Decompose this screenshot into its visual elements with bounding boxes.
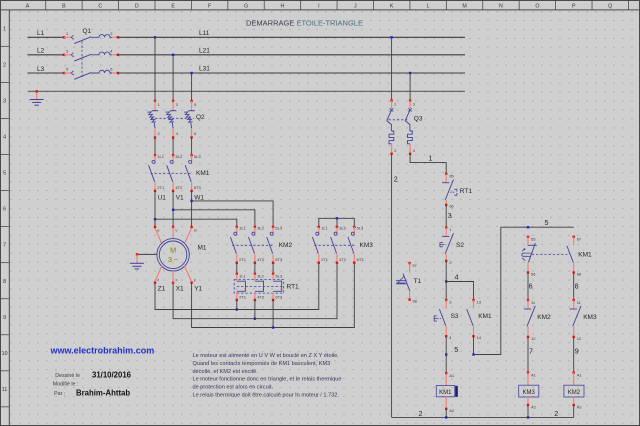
svg-text:A2: A2 [449, 408, 455, 413]
wire control drop 2 [409, 73, 411, 101]
svg-text:DEMARRAGE ETOILE-TRIANGLE: DEMARRAGE ETOILE-TRIANGLE [246, 19, 363, 28]
svg-text:1: 1 [3, 26, 6, 32]
svg-text:6: 6 [3, 207, 6, 213]
contactor KM1 pole 3 [185, 154, 193, 192]
breaker Q2 pole 2 [165, 100, 176, 139]
svg-text:KM2: KM2 [279, 242, 293, 249]
svg-text:w: w [194, 228, 197, 233]
svg-text:9: 9 [3, 315, 6, 321]
svg-text:7: 7 [529, 346, 533, 355]
svg-text:13: 13 [477, 300, 482, 305]
svg-text:KM2: KM2 [568, 390, 581, 396]
svg-text:M: M [170, 246, 176, 255]
wire L2 input [28, 54, 65, 56]
svg-text:3 ~: 3 ~ [168, 255, 178, 264]
node L31 tap [190, 72, 192, 74]
svg-text:10: 10 [2, 351, 8, 357]
svg-text:5: 5 [454, 345, 458, 354]
svg-text:4: 4 [455, 273, 459, 282]
KM3 star bar [319, 218, 355, 227]
svg-text:Brahim-Ahttab: Brahim-Ahttab [76, 389, 130, 398]
wire W1 to KM2 pole3 [192, 201, 274, 227]
svg-text:3L2: 3L2 [257, 226, 264, 231]
Q2 mechanical link [151, 117, 194, 119]
thermal contact RT1 95-96 [442, 173, 453, 206]
Q3 mechanical link [389, 119, 408, 121]
node rail-branchA [527, 226, 529, 228]
node bus KM1coil [445, 416, 447, 418]
svg-text:6T3: 6T3 [275, 257, 283, 262]
KM1 timer link [532, 254, 568, 256]
svg-text:3: 3 [448, 211, 452, 220]
svg-text:95: 95 [449, 174, 454, 179]
wire KM1-U1 [154, 191, 156, 227]
ground PE [30, 92, 44, 105]
wire KM2coil-bus [573, 405, 575, 417]
svg-text:1L1: 1L1 [239, 226, 246, 231]
contactor KM2 pole 1 [230, 226, 238, 264]
svg-text:4T2: 4T2 [175, 185, 183, 190]
contactor KM3 pole 1 [312, 226, 320, 264]
breaker Q2 pole 3 [184, 100, 195, 139]
wire drop phase1 [154, 37, 156, 101]
thermal relay RT1 box [234, 280, 284, 294]
KM1 mechanical link [151, 173, 193, 175]
svg-text:z: z [157, 277, 159, 282]
contactor KM3 pole 2 [331, 226, 339, 264]
svg-text:A1: A1 [449, 373, 455, 378]
svg-text:A: A [26, 4, 30, 10]
wire node5-KM1coil [445, 355, 447, 374]
wire Q3 to RT1 contact [410, 154, 446, 174]
svg-text:5L3: 5L3 [194, 154, 201, 159]
motor M1 terminals u v w [154, 226, 197, 244]
svg-text:6: 6 [529, 281, 533, 290]
svg-text:M1: M1 [198, 245, 207, 252]
svg-text:Dessiné le: Dessiné le [55, 373, 80, 379]
wire L11 rail [118, 36, 465, 38]
svg-text:68: 68 [577, 271, 582, 276]
wire KM1aux to node5 [473, 336, 475, 354]
svg-text:2: 2 [419, 409, 423, 418]
svg-text:12: 12 [577, 336, 582, 341]
wire drop phase2 [172, 55, 174, 101]
KM2 mechanical link [232, 244, 274, 246]
node bus KM3coil [527, 416, 529, 418]
node RT1-X1 [254, 318, 256, 320]
contactor KM1 pole 1 [149, 154, 157, 192]
wire KM2-RT1 3 [272, 263, 274, 274]
svg-text:4T2: 4T2 [257, 295, 265, 300]
wire bottom bus 2 [392, 416, 574, 418]
description text block [193, 353, 342, 398]
breaker Q2 pole 1 [147, 100, 158, 139]
svg-text:98: 98 [412, 299, 417, 304]
pushbutton S2 (NC) [442, 226, 453, 262]
svg-text:2T1: 2T1 [239, 295, 247, 300]
KM3 mechanical link [314, 244, 355, 246]
thermal element RT1 pole 1 [236, 273, 246, 302]
PE junction node [36, 90, 38, 92]
wire 12-A1 right [573, 337, 575, 373]
svg-text:1L1: 1L1 [321, 226, 328, 231]
aux contact KM2 11-12 (NC) [524, 299, 535, 338]
wire V1 to KM2 pole2 [173, 210, 255, 227]
coil KM3 [519, 371, 539, 406]
coil KM1 [436, 372, 458, 410]
svg-text:W1: W1 [194, 194, 204, 201]
contactor KM3 pole 3 [348, 226, 356, 264]
svg-text:2: 2 [394, 175, 398, 184]
svg-text:KM3: KM3 [523, 390, 536, 396]
svg-text:2T1: 2T1 [321, 257, 329, 262]
svg-text:KM3: KM3 [360, 242, 374, 249]
motor M1 terminals z x y [154, 266, 196, 284]
svg-text:55: 55 [531, 236, 536, 241]
svg-text:97: 97 [412, 263, 417, 268]
svg-text:3: 3 [3, 99, 6, 105]
wire RT1 pole1 down [236, 300, 238, 310]
switch-fuse Q1 pole 2 (L2) [63, 52, 119, 61]
svg-text:5L3: 5L3 [357, 226, 364, 231]
motor ground node [136, 253, 138, 255]
svg-text:Q: Q [608, 4, 612, 10]
svg-text:O: O [535, 4, 539, 10]
svg-text:L31: L31 [199, 66, 210, 73]
svg-text:5: 5 [3, 171, 6, 177]
svg-text:A1: A1 [577, 372, 583, 377]
wire KM2-RT1 1 [236, 263, 238, 274]
wire U1 to KM2 pole1 [155, 219, 237, 227]
node U1 tap [154, 218, 156, 220]
svg-text:H: H [281, 4, 285, 10]
svg-text:Quand les contacts temporisés: Quand les contacts temporisés de KM1 bas… [193, 361, 331, 367]
svg-text:D: D [135, 4, 139, 10]
svg-text:KM1: KM1 [439, 390, 452, 396]
svg-text:V1: V1 [176, 194, 184, 201]
wire S2-node4 [445, 261, 447, 282]
breaker Q3 pole 1 [387, 99, 394, 155]
pushbutton S3 (NO start) [439, 299, 447, 338]
wire 55-11 [527, 272, 529, 300]
svg-text:L1: L1 [37, 30, 45, 37]
svg-text:RT1: RT1 [460, 188, 473, 195]
wire RT1 pole2 down [254, 300, 256, 319]
svg-text:v: v [175, 228, 177, 233]
svg-text:X1: X1 [176, 285, 184, 292]
wire control drop 1 [391, 37, 393, 100]
svg-text:S3: S3 [451, 313, 459, 320]
wire node4 down [445, 282, 447, 301]
RT1 trip actuator [450, 189, 457, 195]
svg-text:décolle, et KM2 est excité.: décolle, et KM2 est excité. [193, 369, 259, 375]
aux contact KM3 11-12 (NC) [570, 299, 581, 338]
svg-text:Z1: Z1 [158, 285, 166, 292]
timed contact KM1 55-56 [527, 236, 537, 274]
wire KM2-RT1 2 [254, 263, 256, 274]
svg-text:A2: A2 [577, 404, 583, 409]
ground motor [130, 254, 144, 269]
contactor KM2 pole 3 [267, 226, 275, 264]
svg-text:31/10/2016: 31/10/2016 [92, 371, 132, 380]
wire star middle [336, 218, 338, 227]
wire control rail N [391, 154, 393, 418]
wire Z1 to KM3 [155, 263, 319, 310]
svg-text:2: 2 [554, 409, 558, 418]
coil KM2 [564, 371, 584, 406]
node control tap L31 [409, 72, 411, 74]
wire u drop [154, 219, 156, 227]
motor M1 circle [157, 239, 189, 271]
wire L21 rail [118, 54, 465, 56]
wire KM1-W1 [191, 191, 193, 227]
svg-text:Q1: Q1 [83, 28, 92, 35]
node RT1-Y1 [272, 326, 274, 328]
wire node4 branch [446, 282, 473, 301]
svg-text:4T2: 4T2 [339, 257, 347, 262]
svg-text:6T3: 6T3 [275, 295, 283, 300]
svg-text:Y1: Y1 [194, 285, 202, 292]
Q1 mechanical link [81, 41, 83, 79]
svg-text:1L1: 1L1 [239, 274, 246, 279]
svg-text:u: u [157, 228, 159, 233]
node control tap L11 [390, 36, 392, 38]
svg-text:M: M [462, 4, 466, 10]
motor ground wire [137, 253, 157, 255]
wire L31 rail [118, 72, 465, 74]
svg-text:96: 96 [449, 204, 454, 209]
wire KM3coil-bus [527, 405, 529, 417]
svg-text:T1: T1 [414, 278, 422, 285]
wire drop phase3 [191, 73, 193, 101]
node W1 tap [190, 200, 192, 202]
svg-text:5: 5 [545, 218, 549, 227]
svg-text:J: J [354, 4, 357, 10]
svg-text:9: 9 [575, 346, 579, 355]
contactor KM2 pole 2 [249, 226, 257, 264]
svg-text:Modifié le :: Modifié le : [53, 382, 79, 388]
svg-text:y: y [194, 277, 196, 282]
delay actuator (capsule) [522, 249, 531, 261]
svg-text:K: K [390, 4, 394, 10]
svg-text:6T3: 6T3 [357, 257, 365, 262]
wire node5 rail [474, 227, 574, 354]
svg-text:L2: L2 [37, 48, 45, 55]
wire L1 input [28, 36, 65, 38]
svg-text:14: 14 [477, 335, 482, 340]
RT1 link dashes [237, 285, 282, 287]
S3 button actuator [434, 316, 442, 321]
thermal element RT1 pole 3 [272, 273, 282, 302]
svg-text:I: I [318, 4, 319, 10]
wire X1 to KM3 [173, 263, 337, 319]
svg-text:KM2: KM2 [537, 314, 551, 321]
svg-text:L: L [427, 4, 430, 10]
breaker Q3 pole 2 [405, 99, 412, 155]
svg-text:2: 2 [3, 62, 6, 68]
S2 button actuator [440, 243, 446, 247]
svg-text:5L3: 5L3 [275, 226, 282, 231]
svg-text:L3: L3 [37, 66, 45, 73]
svg-text:S2: S2 [456, 242, 464, 249]
node 4 [445, 280, 447, 282]
node star point [336, 217, 338, 219]
svg-text:12: 12 [531, 336, 536, 341]
node RT1-Z1 [236, 308, 238, 310]
wire Q2-KM1 phase1 [154, 138, 156, 156]
svg-text:1: 1 [429, 154, 433, 163]
wire Q2-KM1 phase3 [191, 138, 193, 156]
svg-text:KM1: KM1 [196, 170, 210, 177]
node 5 left [445, 353, 447, 355]
aux contact KM1 13-14 [467, 299, 475, 338]
svg-text:B: B [62, 4, 66, 10]
svg-text:U1: U1 [158, 194, 167, 201]
svg-text:L11: L11 [199, 30, 210, 37]
svg-text:Q2: Q2 [196, 114, 205, 121]
timed contact KM1 67-68 [567, 236, 575, 274]
svg-text:Le relais thermique doit être: Le relais thermique doit être calculé po… [193, 392, 340, 398]
wire KM1-V1 [172, 191, 174, 227]
svg-text:x: x [175, 277, 177, 282]
node L21 tap [172, 54, 174, 56]
svg-text:7: 7 [3, 243, 6, 249]
wire KM1coil-bus [445, 409, 447, 418]
svg-text:A2: A2 [531, 404, 537, 409]
svg-text:C: C [98, 4, 102, 10]
svg-text:3L2: 3L2 [339, 226, 346, 231]
svg-text:2T1: 2T1 [239, 257, 247, 262]
wire 12-A1 [527, 337, 529, 373]
svg-text:RT1: RT1 [287, 283, 300, 290]
wire S3 to node5 [445, 336, 447, 354]
wire RT1 pole3 down [272, 300, 274, 328]
svg-text:67: 67 [577, 236, 582, 241]
wire L3 input [28, 72, 65, 74]
svg-text:6T3: 6T3 [194, 185, 202, 190]
switch-fuse Q1 pole 1 (L1) [63, 35, 119, 44]
svg-text:3L2: 3L2 [257, 274, 264, 279]
svg-text:de protection est alors en cir: de protection est alors en circuit. [193, 384, 274, 390]
node 5 right [472, 353, 474, 355]
wire 68-11 [573, 272, 575, 300]
node V1 tap [172, 209, 174, 211]
wire RT1-S2 [445, 205, 447, 228]
svg-text:KM1: KM1 [578, 252, 592, 259]
svg-text:L21: L21 [199, 47, 210, 54]
svg-text:4: 4 [3, 135, 6, 141]
svg-text:Le moteur est alimenté en U V: Le moteur est alimenté en U V W et boucl… [193, 353, 340, 359]
svg-text:N: N [499, 4, 503, 10]
svg-text:Q3: Q3 [414, 116, 423, 123]
svg-text:A1: A1 [531, 372, 537, 377]
wire Q2-KM1 phase2 [172, 138, 174, 156]
svg-text:Le moteur fonctionne donc en t: Le moteur fonctionne donc en triangle, e… [193, 377, 342, 383]
svg-text:11: 11 [2, 387, 8, 393]
svg-text:56: 56 [531, 271, 536, 276]
svg-text:www.electrobrahim.com: www.electrobrahim.com [50, 345, 155, 355]
switch-fuse Q1 pole 3 (L3) [63, 70, 119, 79]
svg-text:KM3: KM3 [583, 314, 597, 321]
wire Y1 to KM3 [192, 263, 355, 328]
svg-text:2T1: 2T1 [157, 185, 165, 190]
node L11 tap [154, 36, 156, 38]
thermal element RT1 pole 2 [254, 273, 264, 302]
svg-text:1L1: 1L1 [157, 154, 164, 159]
svg-text:3L2: 3L2 [175, 154, 182, 159]
svg-text:Par :: Par : [54, 391, 65, 397]
wire PE rail [28, 90, 465, 92]
svg-text:P: P [572, 4, 576, 10]
contactor KM1 pole 2 [167, 154, 175, 192]
svg-text:KM1: KM1 [478, 313, 492, 320]
svg-text:4T2: 4T2 [257, 257, 265, 262]
svg-text:8: 8 [575, 281, 579, 290]
svg-text:G: G [244, 4, 248, 10]
svg-text:5L3: 5L3 [275, 274, 282, 279]
svg-text:8: 8 [3, 279, 6, 285]
svg-text:E: E [171, 4, 175, 10]
contact T1 97-98 [396, 262, 411, 301]
